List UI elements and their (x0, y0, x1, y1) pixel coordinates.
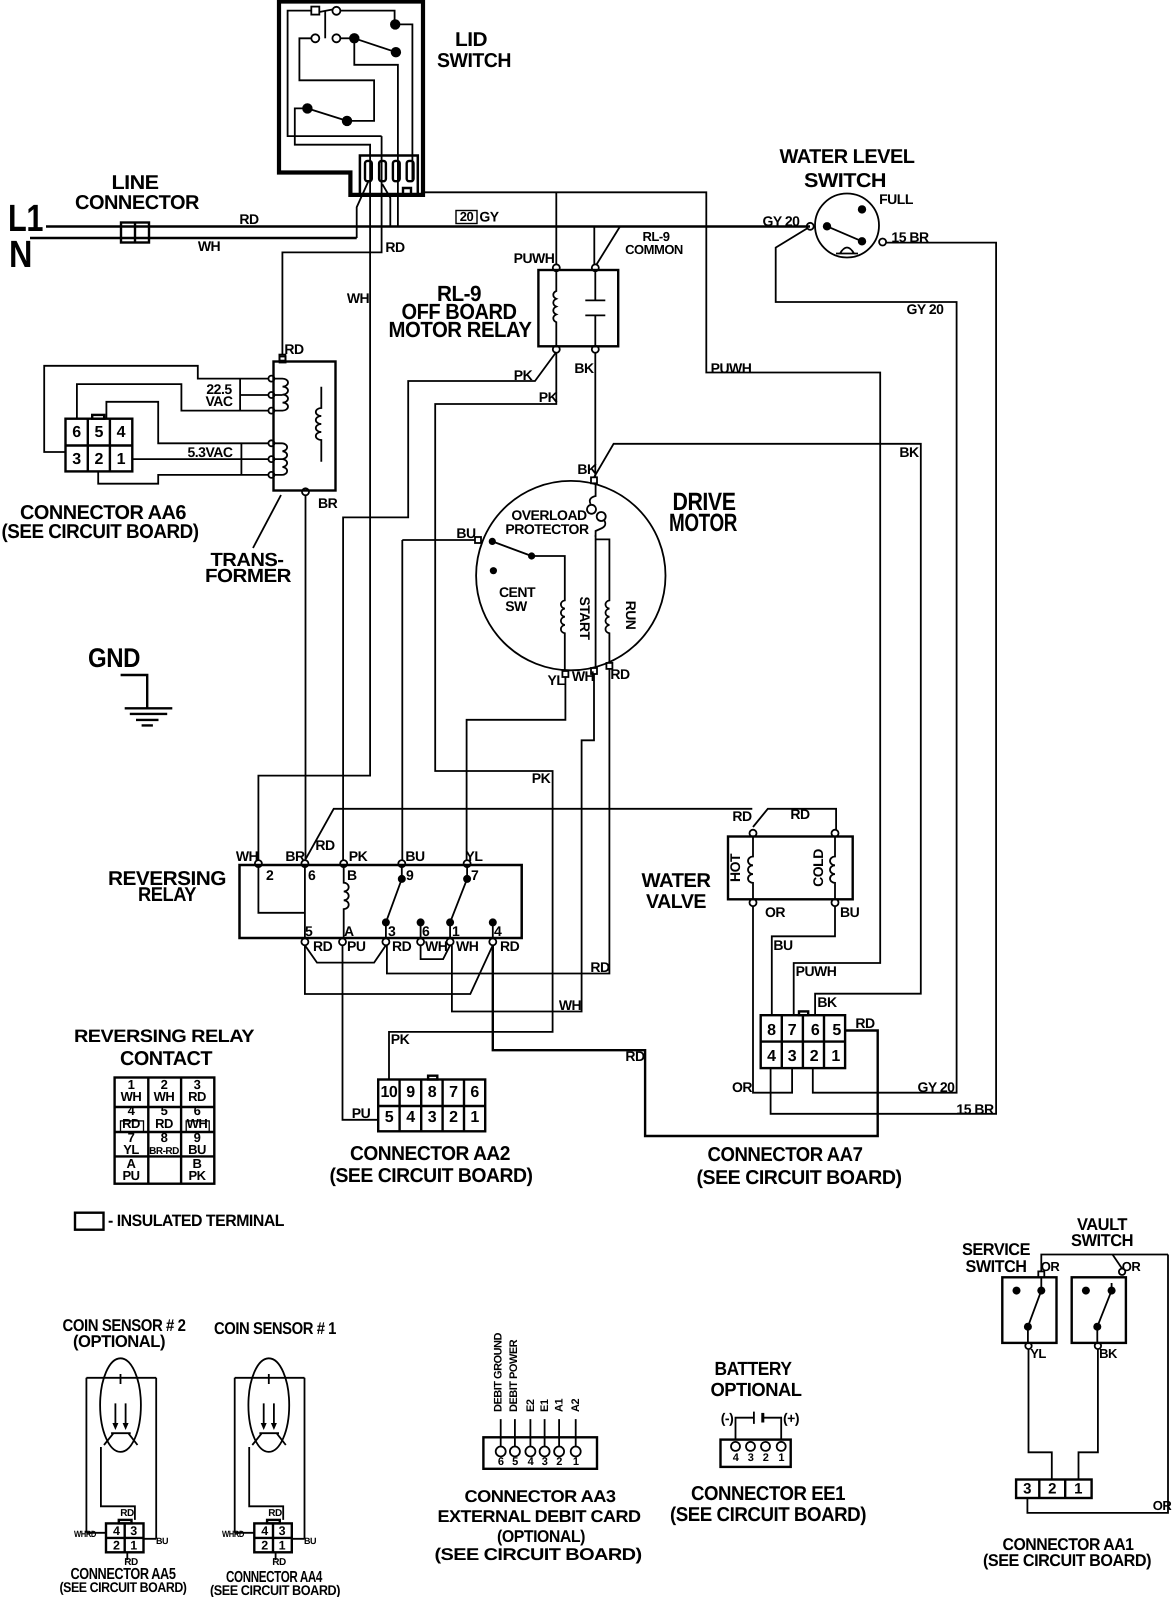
svg-text:PU: PU (352, 1105, 371, 1121)
svg-text:4: 4 (261, 1524, 268, 1538)
svg-text:2: 2 (810, 1048, 819, 1065)
svg-text:1: 1 (573, 1456, 579, 1468)
svg-text:- INSULATED TERMINAL: - INSULATED TERMINAL (108, 1212, 284, 1230)
svg-text:(SEE CIRCUIT BOARD): (SEE CIRCUIT BOARD) (670, 1504, 866, 1526)
svg-text:BR: BR (318, 495, 338, 511)
svg-text:(+): (+) (783, 1410, 799, 1426)
svg-text:COLD: COLD (810, 849, 826, 887)
svg-text:RD: RD (590, 959, 610, 975)
svg-text:CONNECTOR: CONNECTOR (75, 192, 200, 214)
svg-text:(SEE CIRCUIT BOARD): (SEE CIRCUIT BOARD) (210, 1582, 340, 1597)
svg-text:GY 20: GY 20 (907, 301, 945, 317)
svg-text:(SEE CIRCUIT BOARD): (SEE CIRCUIT BOARD) (983, 1551, 1151, 1570)
svg-text:A: A (344, 923, 354, 939)
svg-text:CONTACT: CONTACT (120, 1048, 212, 1070)
svg-text:(SEE CIRCUIT BOARD): (SEE CIRCUIT BOARD) (435, 1545, 642, 1564)
svg-text:BU: BU (405, 848, 425, 864)
svg-text:CONNECTOR AA3: CONNECTOR AA3 (465, 1487, 616, 1506)
svg-text:FULL: FULL (879, 191, 914, 207)
svg-text:OR: OR (765, 904, 785, 920)
svg-text:7: 7 (471, 867, 479, 883)
svg-text:PUWH: PUWH (796, 963, 837, 979)
svg-text:WH: WH (187, 1116, 208, 1131)
svg-text:3: 3 (542, 1456, 548, 1468)
svg-text:BU: BU (773, 937, 793, 953)
svg-text:YL: YL (548, 672, 566, 688)
svg-text:HOT: HOT (727, 853, 743, 882)
svg-text:3: 3 (388, 923, 396, 939)
svg-text:9: 9 (406, 867, 414, 883)
svg-text:WH: WH (425, 938, 448, 954)
svg-text:BK: BK (577, 461, 597, 477)
svg-text:8: 8 (428, 1084, 437, 1101)
svg-text:WATER: WATER (642, 870, 712, 892)
svg-text:YL: YL (466, 848, 484, 864)
svg-text:CONNECTOR AA2: CONNECTOR AA2 (350, 1143, 510, 1165)
svg-text:WH: WH (347, 290, 370, 306)
svg-text:COMMON: COMMON (625, 242, 683, 257)
svg-text:RD: RD (625, 1048, 645, 1064)
svg-text:1: 1 (452, 923, 460, 939)
svg-text:BK: BK (574, 360, 594, 376)
svg-text:WHRD: WHRD (222, 1529, 245, 1539)
svg-text:7: 7 (788, 1022, 797, 1039)
svg-text:PK: PK (188, 1168, 206, 1183)
svg-text:WATER LEVEL: WATER LEVEL (780, 146, 915, 168)
svg-text:DEBIT GROUND: DEBIT GROUND (493, 1333, 505, 1413)
svg-text:RD: RD (313, 938, 333, 954)
svg-text:GY: GY (479, 209, 499, 225)
svg-text:RD: RD (272, 1557, 286, 1568)
svg-text:2: 2 (94, 451, 103, 468)
svg-text:BU: BU (188, 1142, 206, 1157)
svg-text:YL: YL (1030, 1346, 1046, 1361)
svg-text:5: 5 (832, 1022, 841, 1039)
svg-text:5: 5 (94, 424, 103, 441)
svg-text:(-): (-) (721, 1410, 734, 1426)
svg-text:EXTERNAL DEBIT CARD: EXTERNAL DEBIT CARD (438, 1507, 641, 1526)
svg-text:8: 8 (767, 1022, 776, 1039)
svg-text:15 BR: 15 BR (956, 1101, 994, 1117)
svg-text:A1: A1 (554, 1399, 566, 1412)
svg-text:3: 3 (748, 1452, 754, 1464)
svg-text:WH: WH (236, 848, 259, 864)
svg-text:4: 4 (117, 424, 126, 441)
svg-text:1: 1 (279, 1539, 286, 1553)
svg-text:2: 2 (449, 1109, 458, 1126)
svg-text:CONNECTOR EE1: CONNECTOR EE1 (691, 1483, 845, 1505)
svg-text:4: 4 (767, 1048, 776, 1065)
svg-text:BK: BK (817, 994, 837, 1010)
svg-text:CONNECTOR AA7: CONNECTOR AA7 (708, 1144, 863, 1166)
svg-text:2: 2 (266, 867, 274, 883)
svg-text:10: 10 (381, 1084, 398, 1101)
svg-text:BATTERY: BATTERY (715, 1359, 793, 1380)
svg-text:MOTOR RELAY: MOTOR RELAY (389, 317, 533, 342)
svg-text:PK: PK (391, 1031, 410, 1047)
svg-text:VAC: VAC (205, 393, 232, 409)
svg-text:RD: RD (155, 1116, 173, 1131)
svg-text:E1: E1 (539, 1399, 551, 1412)
svg-text:5: 5 (512, 1456, 518, 1468)
svg-text:(SEE CIRCUIT BOARD): (SEE CIRCUIT BOARD) (60, 1579, 187, 1595)
svg-text:DEBIT POWER: DEBIT POWER (508, 1339, 520, 1412)
svg-text:SWITCH: SWITCH (1071, 1231, 1133, 1250)
svg-text:N: N (9, 234, 32, 276)
svg-text:BU: BU (156, 1536, 168, 1546)
svg-text:PK: PK (539, 389, 558, 405)
svg-text:PK: PK (349, 848, 368, 864)
svg-text:WH: WH (456, 938, 479, 954)
svg-text:1: 1 (130, 1539, 137, 1553)
svg-text:WH: WH (121, 1089, 142, 1104)
svg-text:1: 1 (831, 1048, 840, 1065)
svg-text:1: 1 (470, 1109, 479, 1126)
svg-text:START: START (577, 596, 593, 640)
svg-text:PUWH: PUWH (711, 360, 752, 376)
svg-text:FORMER: FORMER (205, 566, 292, 587)
svg-text:6: 6 (498, 1456, 504, 1468)
svg-text:PU: PU (347, 938, 366, 954)
svg-text:(SEE CIRCUIT BOARD): (SEE CIRCUIT BOARD) (2, 521, 199, 543)
svg-text:1: 1 (778, 1452, 784, 1464)
svg-text:(SEE CIRCUIT BOARD): (SEE CIRCUIT BOARD) (330, 1165, 533, 1187)
svg-text:3: 3 (130, 1524, 137, 1538)
svg-text:LID: LID (455, 29, 487, 51)
svg-text:LINE: LINE (112, 172, 159, 194)
svg-text:5.3VAC: 5.3VAC (188, 444, 233, 460)
svg-text:PUWH: PUWH (514, 250, 555, 266)
svg-text:BU: BU (840, 904, 860, 920)
svg-text:SWITCH: SWITCH (437, 50, 511, 72)
svg-text:6: 6 (308, 867, 316, 883)
svg-text:OR: OR (732, 1079, 752, 1095)
svg-text:6: 6 (72, 424, 81, 441)
svg-text:YL: YL (123, 1142, 139, 1157)
svg-text:GY 20: GY 20 (918, 1079, 956, 1095)
svg-text:RD: RD (790, 806, 810, 822)
svg-text:RD: RD (122, 1116, 140, 1131)
svg-text:PROTECTOR: PROTECTOR (505, 521, 589, 537)
svg-text:2: 2 (261, 1539, 268, 1553)
svg-text:4: 4 (113, 1524, 120, 1538)
svg-text:RD: RD (239, 211, 259, 227)
svg-text:9: 9 (406, 1084, 415, 1101)
svg-text:RD: RD (385, 239, 405, 255)
svg-text:RD: RD (188, 1089, 206, 1104)
svg-text:OR: OR (1122, 1259, 1142, 1274)
svg-text:E2: E2 (525, 1399, 537, 1412)
svg-text:OR: OR (1153, 1498, 1173, 1513)
svg-text:BU: BU (304, 1536, 316, 1546)
svg-text:3: 3 (279, 1524, 286, 1538)
svg-text:SWITCH: SWITCH (966, 1257, 1027, 1276)
svg-text:SWITCH: SWITCH (804, 170, 886, 192)
svg-text:RD: RD (500, 938, 520, 954)
svg-text:WH: WH (198, 238, 221, 254)
svg-text:3: 3 (72, 451, 81, 468)
svg-text:20: 20 (460, 209, 474, 224)
svg-text:WHRD: WHRD (74, 1529, 97, 1539)
svg-text:BK: BK (899, 444, 919, 460)
svg-text:6: 6 (470, 1084, 479, 1101)
svg-text:RD: RD (120, 1508, 134, 1519)
svg-text:RD: RD (315, 837, 335, 853)
svg-text:RD: RD (284, 341, 304, 357)
svg-text:B: B (347, 867, 357, 883)
svg-text:(SEE CIRCUIT BOARD): (SEE CIRCUIT BOARD) (697, 1167, 902, 1189)
svg-text:2: 2 (763, 1452, 769, 1464)
svg-text:(OPTIONAL): (OPTIONAL) (497, 1527, 585, 1546)
svg-text:VALVE: VALVE (646, 891, 706, 913)
svg-text:SW: SW (505, 598, 528, 614)
svg-text:GY 20: GY 20 (763, 213, 801, 229)
svg-text:RD: RD (392, 938, 412, 954)
svg-text:6: 6 (811, 1022, 820, 1039)
svg-text:8: 8 (161, 1130, 168, 1145)
svg-text:WH: WH (559, 997, 582, 1013)
svg-text:RUN: RUN (623, 601, 639, 630)
svg-text:GND: GND (88, 643, 140, 673)
svg-text:BR-RD: BR-RD (149, 1146, 179, 1157)
svg-text:WH: WH (154, 1089, 175, 1104)
svg-text:7: 7 (449, 1084, 458, 1101)
svg-text:RD: RD (855, 1015, 875, 1031)
svg-text:PU: PU (122, 1168, 139, 1183)
svg-text:3: 3 (788, 1048, 797, 1065)
svg-text:BK: BK (1099, 1346, 1118, 1361)
svg-text:WH: WH (572, 668, 595, 684)
svg-text:BU: BU (456, 525, 476, 541)
svg-text:1: 1 (117, 451, 126, 468)
svg-text:1: 1 (1074, 1481, 1082, 1498)
svg-text:BR: BR (285, 848, 305, 864)
svg-text:MOTOR: MOTOR (669, 509, 737, 537)
svg-text:4: 4 (406, 1109, 415, 1126)
svg-text:OPTIONAL: OPTIONAL (711, 1380, 803, 1401)
svg-text:3: 3 (428, 1109, 437, 1126)
svg-text:2: 2 (1048, 1481, 1056, 1498)
svg-text:5: 5 (305, 923, 313, 939)
svg-text:3: 3 (1023, 1481, 1031, 1498)
svg-text:RD: RD (268, 1508, 282, 1519)
svg-text:OR: OR (1041, 1259, 1061, 1274)
svg-text:A2: A2 (570, 1399, 582, 1412)
svg-text:RELAY: RELAY (138, 884, 197, 906)
svg-text:RD: RD (610, 666, 630, 682)
svg-text:REVERSING RELAY: REVERSING RELAY (74, 1026, 255, 1046)
svg-text:COIN SENSOR # 1: COIN SENSOR # 1 (214, 1319, 336, 1338)
svg-text:RD: RD (732, 808, 752, 824)
svg-text:2: 2 (113, 1539, 120, 1553)
svg-text:(OPTIONAL): (OPTIONAL) (73, 1332, 165, 1351)
svg-text:PK: PK (532, 770, 551, 786)
svg-text:5: 5 (385, 1109, 394, 1126)
svg-text:2: 2 (556, 1456, 562, 1468)
